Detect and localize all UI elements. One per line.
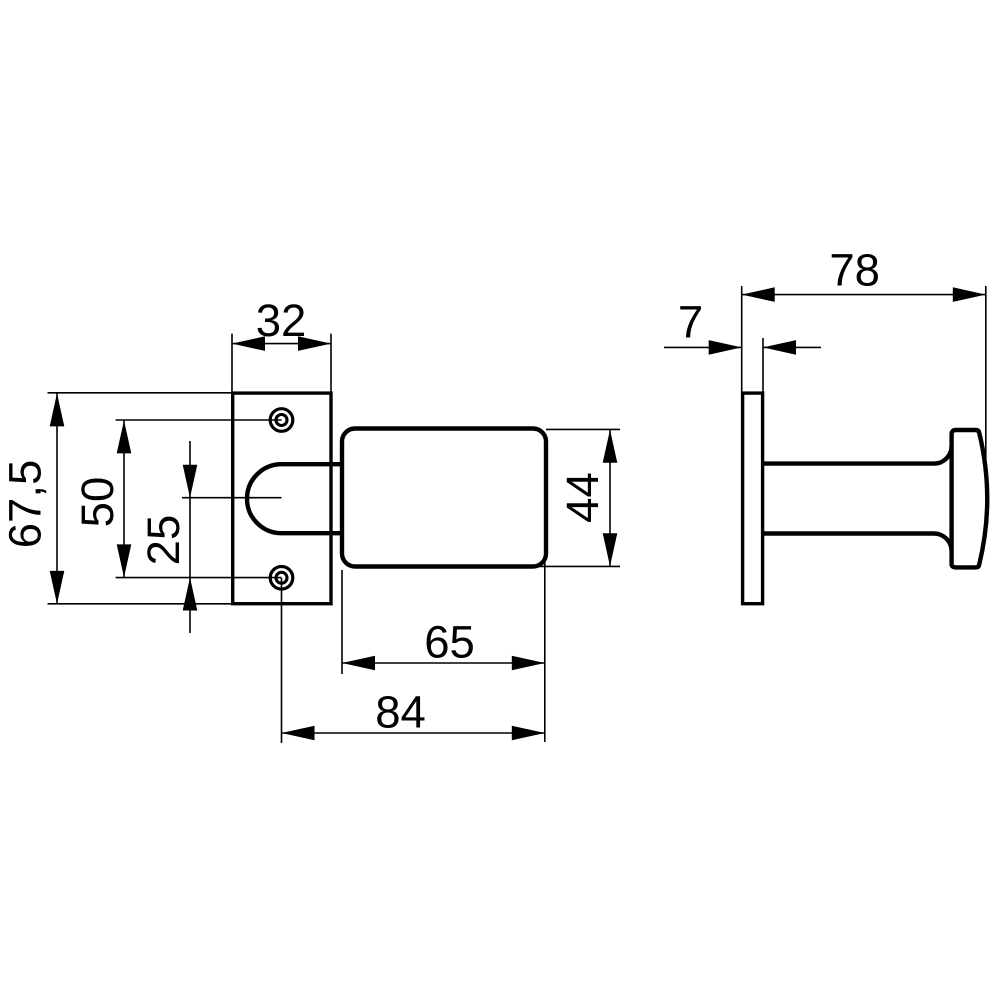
- dim 44 arrow bottom: [603, 533, 618, 566]
- dim 50 arrow bottom: [117, 544, 132, 577]
- svg-text:25: 25: [138, 515, 189, 566]
- stem bottom line with fillet (side view): [763, 534, 952, 552]
- dim 84 arrow right: [512, 726, 545, 741]
- dim 7 arrow left (outside, pointing right): [709, 340, 742, 355]
- screw hole bottom inner: [276, 572, 287, 583]
- dim 32 arrow left: [232, 336, 265, 351]
- dim 65 extension line left: [341, 570, 343, 674]
- dim 25 arrow bottom (outside, pointing up): [183, 578, 198, 611]
- dim 7 arrow right (outside, pointing left): [763, 340, 796, 355]
- screw hole top inner: [276, 415, 287, 426]
- dim 84 arrow left: [282, 726, 315, 741]
- dim 50 leader top to hole: [116, 419, 282, 421]
- dim 65 dimension line: [342, 662, 545, 664]
- dim 44 extension line bottom: [538, 565, 620, 567]
- dim 44 arrow top: [603, 430, 618, 463]
- dim 32 arrow right: [298, 336, 331, 351]
- dim 67,5 arrow bottom: [50, 571, 65, 604]
- body (rounded rectangle, front view): [342, 429, 546, 567]
- dim 78 extension line left: [741, 286, 743, 393]
- dim 50 arrow top: [117, 420, 132, 453]
- svg-text:32: 32: [256, 295, 307, 346]
- tongue (U-shaped catch, front view): [247, 464, 344, 533]
- dim 67,5 dimension line: [56, 393, 58, 604]
- dim 50 leader bottom to hole: [116, 577, 282, 579]
- dim 25 centerline leader: [182, 497, 282, 499]
- cap (side view): [952, 430, 988, 567]
- screw hole bottom outer: [270, 567, 293, 590]
- svg-text:67,5: 67,5: [0, 460, 51, 549]
- dim 7 dimension line left part: [664, 346, 742, 348]
- dim 78 extension line right: [985, 286, 987, 470]
- dim 32 extension line right: [330, 334, 332, 393]
- dim 67,5 extension line bottom: [48, 603, 234, 605]
- dim 44 extension line top: [546, 428, 620, 430]
- mounting plate (side view): [743, 393, 763, 604]
- dim 78 arrow right: [953, 287, 986, 302]
- dim 25 arrow top (outside, pointing down): [183, 465, 198, 498]
- screw hole top outer: [270, 409, 293, 432]
- dim 78 dimension line: [742, 294, 986, 296]
- dim 65 / 84 extension line right: [544, 552, 546, 742]
- dim 67,5 arrow top: [50, 393, 65, 426]
- stem top line with fillet (side view): [763, 446, 952, 464]
- svg-text:65: 65: [424, 617, 475, 668]
- dim 78 arrow left: [742, 287, 775, 302]
- dim 32 extension line left: [231, 334, 233, 393]
- dim 65 arrow left: [342, 656, 375, 671]
- dim 84 extension line left: [281, 578, 283, 743]
- svg-text:44: 44: [557, 472, 608, 523]
- dim 25 dimension line: [189, 441, 191, 633]
- mounting plate (front view): [233, 393, 331, 604]
- svg-text:7: 7: [678, 297, 703, 348]
- dim 32 dimension line: [232, 343, 331, 345]
- dim 84 dimension line: [282, 732, 545, 734]
- dim 7 dimension line right part: [763, 346, 821, 348]
- svg-text:84: 84: [375, 687, 426, 738]
- dim 67,5 extension line top: [48, 392, 234, 394]
- dim 65 arrow right: [512, 656, 545, 671]
- svg-text:50: 50: [72, 477, 123, 528]
- dim 50 dimension line: [123, 420, 125, 578]
- dim 44 dimension line: [609, 430, 611, 566]
- dim 7 extension line right: [762, 338, 764, 393]
- svg-text:78: 78: [829, 245, 880, 296]
